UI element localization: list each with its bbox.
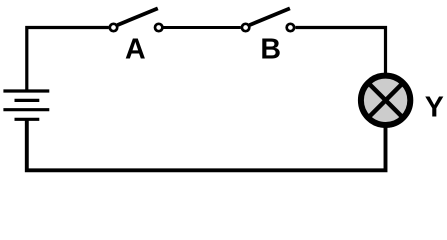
lamp Y body bbox=[361, 76, 410, 125]
switch A lever bbox=[117, 8, 158, 25]
wire: bottom loop from battery negative down, across and up to lamp bbox=[27, 119, 386, 170]
switch B lever bbox=[249, 8, 290, 25]
switch B left terminal bbox=[242, 24, 249, 31]
switch B right terminal bbox=[287, 24, 294, 31]
wire: between switch A and switch B bbox=[164, 26, 241, 29]
switch A left terminal bbox=[110, 24, 117, 31]
svg-text:B: B bbox=[260, 34, 281, 66]
battery (two-cell) bbox=[3, 91, 49, 119]
wire: top-left segment from battery positive up and right to switch A bbox=[27, 28, 109, 92]
switch A right terminal bbox=[155, 24, 162, 31]
svg-text:A: A bbox=[125, 34, 146, 66]
wire: top-right segment from switch B right and down to lamp bbox=[295, 28, 385, 77]
svg-text:Y: Y bbox=[425, 92, 444, 124]
